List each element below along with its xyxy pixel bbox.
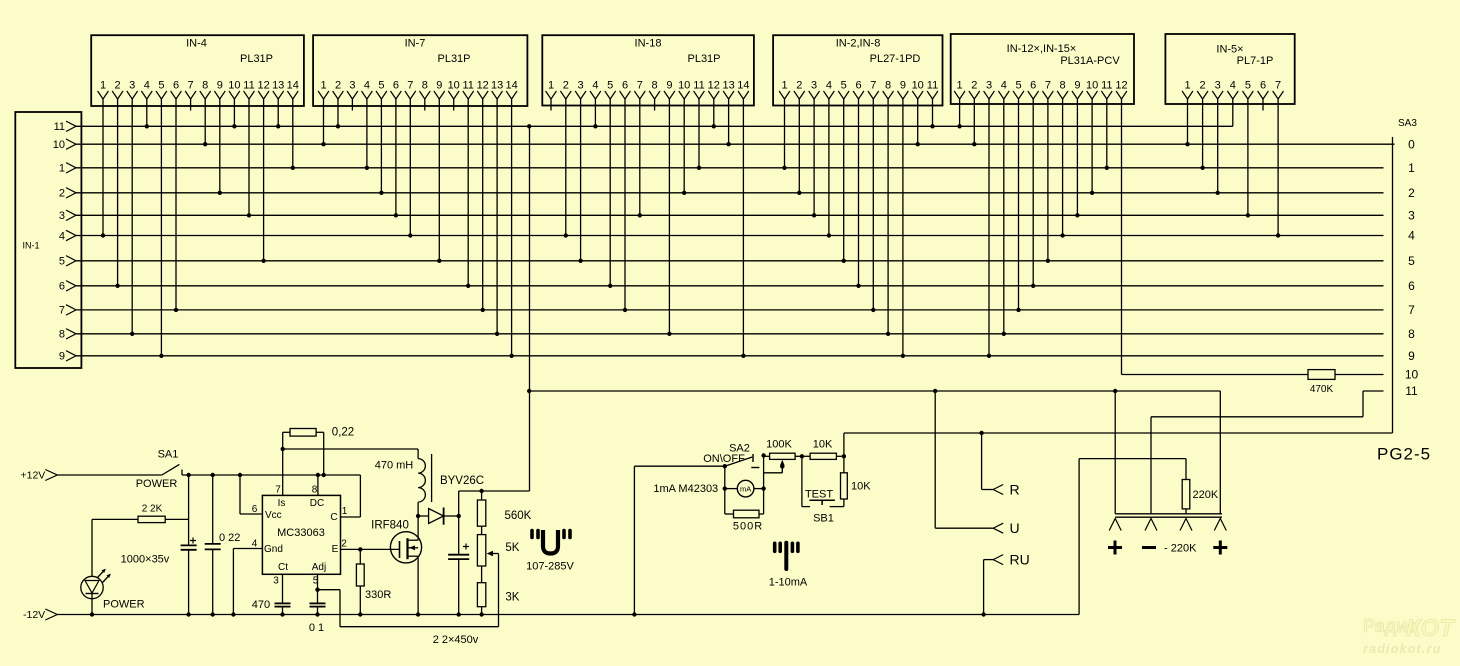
svg-text:8: 8 [202, 80, 208, 92]
connector box IN-12x,IN-15x [951, 34, 1134, 104]
diode BYV26C [418, 515, 429, 517]
svg-text:4: 4 [1001, 80, 1007, 92]
label "I" output current symbol [784, 543, 788, 569]
svg-text:12: 12 [1115, 80, 1127, 92]
wire IN-7 pin 2 to row r11 [337, 99, 339, 126]
wire +12V to switch [57, 474, 162, 476]
wire IN-7 pin 5 to row r2 [380, 99, 382, 193]
svg-text:2: 2 [341, 539, 347, 550]
svg-text:7: 7 [188, 80, 194, 92]
switch SA2 [725, 457, 753, 466]
wire IN-7 pin 14 to row r9 [511, 99, 513, 356]
capacitor 0.1 [310, 602, 326, 604]
svg-text:1mA M42303: 1mA M42303 [653, 483, 718, 495]
junction dots [101, 233, 105, 237]
wire IN-12x,IN-15x pin 2 to row r0 [973, 99, 975, 144]
svg-text:SA3: SA3 [1398, 118, 1417, 129]
wire IN-7 pin 1 to row r0 [323, 99, 325, 144]
wire stub IN-5x pin 6 [1262, 99, 1264, 111]
wire IN-4 pin 14 to row r1 [292, 99, 294, 168]
svg-text:ON\OFF: ON\OFF [703, 453, 745, 465]
wire pin 2 E to gate [341, 548, 400, 550]
capacitor 0.22 input [212, 475, 214, 544]
wire ground to SA2 [633, 466, 635, 614]
svg-text:7: 7 [1275, 80, 1281, 92]
svg-text:8: 8 [1408, 327, 1415, 341]
svg-text:14: 14 [737, 80, 749, 92]
svg-text:3: 3 [1215, 80, 1221, 92]
wire IN-4 pin 1 to row r4 [102, 99, 104, 236]
wire ground rail [57, 614, 1079, 616]
svg-text:470: 470 [252, 599, 270, 611]
wire IN-7 pin 4 to row r1 [366, 99, 368, 168]
resistor 3K [481, 566, 483, 583]
wire IN-2,IN-8 pin 10 to row r0 [917, 99, 919, 144]
svg-text:7: 7 [275, 485, 281, 496]
wire down to minus terminal [1150, 417, 1152, 514]
svg-text:SB1: SB1 [813, 513, 834, 525]
svg-text:BYV26C: BYV26C [440, 475, 484, 487]
svg-text:PL7-1P: PL7-1P [1237, 55, 1274, 67]
svg-text:6: 6 [622, 80, 628, 92]
svg-text:IN-18: IN-18 [635, 38, 662, 50]
wire IN-7 pin 7 to row r4 [409, 99, 411, 236]
svg-text:7: 7 [870, 80, 876, 92]
svg-text:PL27-1PD: PL27-1PD [870, 53, 921, 65]
svg-text:11: 11 [1405, 384, 1418, 398]
svg-text:7: 7 [407, 80, 413, 92]
wire row: IN-1 pin 9 / SA3 contact 9 [75, 355, 1384, 357]
svg-text:2: 2 [1200, 80, 1206, 92]
resistor 2.2K [92, 518, 138, 520]
svg-text:3: 3 [349, 80, 355, 92]
wire IN-7 pin 9 to row r5 [438, 99, 440, 261]
wire stub IN-18 pin 8 [654, 99, 656, 111]
svg-text:6: 6 [173, 80, 179, 92]
resistor 560K [481, 491, 483, 500]
LED POWER [81, 576, 103, 598]
svg-text:TEST: TEST [805, 489, 833, 501]
svg-text:C: C [330, 512, 337, 523]
svg-text:4: 4 [59, 230, 65, 242]
svg-text:6: 6 [855, 80, 861, 92]
svg-text:POWER: POWER [103, 599, 145, 611]
wire IN-18 pin 3 to row r5 [580, 99, 582, 261]
svg-text:SA1: SA1 [158, 449, 179, 461]
svg-text:Vcc: Vcc [265, 510, 282, 521]
svg-text:3: 3 [273, 576, 279, 587]
wire IN-4 pin 9 to row r2 [219, 99, 221, 193]
wire LED branch [91, 519, 93, 576]
svg-text:2: 2 [796, 80, 802, 92]
wire IN-18 pin 11 to row r1 [698, 99, 700, 168]
svg-text:0 1: 0 1 [309, 622, 324, 634]
wire row: HV line to SA3 area (row 11 level) [529, 390, 1220, 392]
svg-text:12: 12 [708, 80, 720, 92]
svg-text:10: 10 [228, 80, 240, 92]
svg-text:9: 9 [666, 80, 672, 92]
resistor 0,22 [283, 431, 290, 433]
wire IN-12x,IN-15x pin 12 down to row 10 elbow [1121, 99, 1123, 375]
wire step down from contact 11 [1362, 391, 1364, 417]
svg-text:470 mH: 470 mH [375, 460, 414, 472]
svg-text:mA: mA [740, 485, 751, 494]
wire IN-12x,IN-15x pin 11 to row r1 [1106, 99, 1108, 168]
svg-text:4: 4 [1230, 80, 1236, 92]
svg-text:0 22: 0 22 [219, 532, 240, 544]
svg-text:radiokot.ru: radiokot.ru [1363, 642, 1441, 656]
svg-text:Ct: Ct [278, 562, 288, 573]
wire IN-4 pin 2 to row r6 [117, 99, 119, 286]
svg-text:1: 1 [781, 80, 787, 92]
svg-text:IN-12×,IN-15×: IN-12×,IN-15× [1007, 43, 1077, 55]
switch SA1 [162, 464, 180, 475]
wire drain [417, 516, 419, 540]
wire pin 7 [282, 432, 284, 495]
svg-text:100K: 100K [766, 439, 792, 451]
wire IN-2,IN-8 pin 11 to row r11 [932, 99, 934, 126]
wire IN-5x pin 7 to row r4 [1277, 99, 1279, 236]
label plus left [1108, 546, 1122, 549]
wire 10K right node up to selector [843, 433, 845, 456]
wire IN-4 pin 13 to row r11 [277, 99, 279, 126]
socket fork at 1186 [1180, 519, 1192, 531]
wire row: IN-1 pin 11 anode bus [75, 125, 1233, 127]
svg-text:2: 2 [563, 80, 569, 92]
wire IN-12x,IN-15x pin 10 to row r2 [1091, 99, 1093, 193]
svg-text:PL31P: PL31P [437, 53, 470, 65]
svg-text:14: 14 [287, 80, 299, 92]
wire ground up to 220K [1078, 459, 1080, 615]
svg-text:10K: 10K [813, 439, 833, 451]
label plus right [1213, 546, 1227, 549]
wire +12V rail corner to pin 1 [359, 475, 361, 517]
svg-text:10: 10 [1086, 80, 1098, 92]
wire IN-12x,IN-15x pin 8 to row r4 [1062, 99, 1064, 236]
svg-text:11: 11 [54, 121, 65, 133]
wire IN-18 pin 2 to row r4 [565, 99, 567, 236]
connector box IN-7 [313, 35, 527, 106]
wire row: IN-1 pin 10 / SA3 contact 0 [75, 143, 1395, 145]
svg-text:12: 12 [257, 80, 269, 92]
svg-text:1: 1 [59, 163, 65, 175]
wire HV vertical from anode bus to converter output [529, 126, 531, 491]
connector box IN-2,IN-8 [773, 35, 942, 105]
wire IN-18 pin 14 to row r9 [742, 99, 744, 356]
svg-text:PL31P: PL31P [240, 53, 273, 65]
resistor 330R [359, 549, 361, 564]
svg-text:2: 2 [1408, 186, 1415, 200]
svg-text:560K: 560K [505, 510, 532, 522]
socket bar [1115, 513, 1222, 515]
svg-text:1: 1 [320, 80, 326, 92]
wire to inductor [283, 448, 418, 450]
svg-text:3K: 3K [505, 592, 519, 604]
wire stub IN-4 pin 7 [190, 99, 192, 111]
wire IN-5x pin 4 down to row 11 bus end elbow [1232, 99, 1234, 126]
svg-text:9: 9 [1074, 80, 1080, 92]
svg-text:2: 2 [971, 80, 977, 92]
svg-text:5: 5 [1408, 254, 1415, 268]
wire pin 3 Ct [282, 574, 284, 603]
wire stub IN-18 pin 1 [550, 99, 552, 111]
wire +12V rail [182, 474, 360, 476]
wire source to rail [417, 556, 419, 614]
svg-text:220K: 220K [1193, 489, 1219, 501]
wire IN-5x pin 2 to row r1 [1202, 99, 1204, 168]
wire IN-7 pin 12 to row r7 [482, 99, 484, 310]
svg-text:2: 2 [115, 80, 121, 92]
capacitor 1000uF 35v [188, 475, 190, 545]
wire converter output horizontal [459, 490, 530, 492]
wire IN-2,IN-8 pin 7 to row r7 [872, 99, 874, 310]
svg-text:IN-5×: IN-5× [1216, 44, 1243, 56]
op-amp U1 MC33063 box [262, 495, 340, 574]
svg-text:500R: 500R [733, 520, 763, 532]
wire IN-4 pin 4 to row r11 [146, 99, 148, 126]
wire IN-4 pin 5 to row r9 [160, 99, 162, 356]
svg-text:+12V: +12V [21, 470, 46, 482]
wire pin 5 Adj [317, 574, 319, 603]
resistor 10K series [802, 455, 810, 457]
svg-text:PG2-5: PG2-5 [1377, 445, 1431, 464]
socket fork at 1115.2 [1109, 519, 1121, 531]
svg-text:1: 1 [548, 80, 554, 92]
svg-text:14: 14 [505, 80, 517, 92]
wire row: SA3 contact 10 with 470K [1122, 374, 1384, 376]
wire IN-12x,IN-15x pin 1 to row r11 [959, 99, 961, 126]
svg-text:5K: 5K [505, 542, 519, 554]
wire meter right node [763, 456, 765, 515]
wire IN-4 pin 11 to row r3 [248, 99, 250, 215]
wire minus terminal [1219, 391, 1221, 514]
svg-text:0: 0 [1408, 137, 1415, 151]
resistor 5K potentiometer [481, 526, 483, 534]
wire SA3 contact 11 stub [1363, 390, 1384, 392]
wire pin 6 Vcc [239, 475, 241, 514]
wire IN-2,IN-8 pin 2 to row r2 [798, 99, 800, 193]
svg-text:DC: DC [310, 498, 324, 509]
wire feedback from pin 5 [318, 589, 341, 591]
svg-text:3: 3 [59, 210, 65, 222]
wire IN-18 pin 10 to row r2 [683, 99, 685, 193]
svg-text:IN-7: IN-7 [405, 38, 426, 50]
wire IN-18 pin 5 to row r6 [609, 99, 611, 286]
wire LED to rail [91, 594, 93, 615]
svg-text:5: 5 [1245, 80, 1251, 92]
wire plus terminal left [1114, 391, 1116, 514]
svg-text:U: U [1010, 520, 1020, 536]
socket fork at 1151 [1145, 519, 1157, 531]
label minus [1142, 546, 1156, 549]
resistor 100K trimmer [764, 455, 770, 457]
wire horizontal from contact 11 step [1151, 416, 1363, 418]
wire row: IN-1 pin 2 / SA3 contact 2 [75, 192, 1384, 194]
svg-text:5: 5 [158, 80, 164, 92]
wiper of 100K [781, 462, 783, 473]
wire IN-2,IN-8 pin 6 to row r6 [858, 99, 860, 286]
svg-text:3: 3 [986, 80, 992, 92]
wire IN-7 pin 11 to row r6 [467, 99, 469, 286]
wire IN-5x pin 1 to row r0 [1187, 99, 1189, 144]
wire IN-18 pin 12 to row r11 [713, 99, 715, 126]
connector box IN-18 [542, 35, 754, 105]
wire row: IN-1 pin 7 / SA3 contact 7 [75, 309, 1384, 311]
wire IN-18 pin 13 to row r0 [728, 99, 730, 144]
svg-text:6: 6 [59, 281, 65, 293]
svg-text:2: 2 [335, 80, 341, 92]
svg-text:12: 12 [477, 80, 489, 92]
svg-text:4: 4 [364, 80, 370, 92]
svg-text:10: 10 [912, 80, 924, 92]
svg-text:8: 8 [885, 80, 891, 92]
wire stub IN-7 pin 3 [351, 99, 353, 111]
connector IN-1 box [15, 112, 81, 368]
wire IN-4 pin 8 to row r0 [204, 99, 206, 144]
transistor IRF840 [390, 532, 421, 563]
connector box IN-5x [1165, 34, 1294, 104]
inductor 470 mH [417, 449, 419, 459]
svg-text:1: 1 [957, 80, 963, 92]
svg-text:5: 5 [378, 80, 384, 92]
svg-text:13: 13 [491, 80, 503, 92]
wire IN-2,IN-8 pin 3 to row r3 [813, 99, 815, 215]
svg-text:5: 5 [607, 80, 613, 92]
wire row: IN-1 pin 6 / SA3 contact 6 [75, 285, 1384, 287]
svg-text:4: 4 [144, 80, 150, 92]
svg-text:E: E [332, 544, 339, 555]
svg-text:2: 2 [59, 188, 65, 200]
switch SA3 common bus vertical [1392, 137, 1394, 433]
wire IN-4 pin 6 to row r7 [175, 99, 177, 310]
capacitor 2.2x450v [458, 516, 460, 555]
svg-text:5: 5 [59, 256, 65, 268]
wire pin 8 [317, 475, 319, 495]
svg-text:9: 9 [217, 80, 223, 92]
svg-text:8: 8 [652, 80, 658, 92]
wire IN-12x,IN-15x pin 6 to row r6 [1032, 99, 1034, 286]
svg-text:107-285V: 107-285V [526, 560, 574, 572]
svg-text:R: R [1010, 482, 1020, 498]
svg-text:7: 7 [1408, 303, 1415, 317]
svg-text:11: 11 [1101, 80, 1112, 92]
wire IN-5x pin 5 to row r3 [1247, 99, 1249, 215]
svg-text:4: 4 [592, 80, 598, 92]
push button SB1 TEST [801, 456, 803, 506]
wire IN-18 pin 6 to row r7 [624, 99, 626, 310]
svg-text:IN-4: IN-4 [186, 38, 207, 50]
wire IN-18 pin 4 to row r11 [594, 99, 596, 126]
svg-text:330R: 330R [365, 589, 391, 601]
svg-text:PL31P: PL31P [687, 53, 720, 65]
svg-text:- 220K: - 220K [1164, 543, 1197, 555]
wire IN-12x,IN-15x pin 9 to row r3 [1076, 99, 1078, 215]
svg-text:3: 3 [129, 80, 135, 92]
svg-text:8: 8 [422, 80, 428, 92]
label "U" output voltage symbol [543, 530, 558, 554]
resistor 500R shunt [725, 513, 734, 515]
svg-text:5: 5 [841, 80, 847, 92]
svg-text:10K: 10K [851, 481, 871, 493]
svg-text:2 2K: 2 2K [142, 504, 163, 515]
wire row: IN-1 pin 4 / SA3 contact 4 [75, 235, 1384, 237]
wire IN-5x pin 3 to row r2 [1217, 99, 1219, 193]
svg-text:1: 1 [100, 80, 106, 92]
capacitor 470 [275, 602, 291, 604]
svg-text:7: 7 [1045, 80, 1051, 92]
svg-text:6: 6 [393, 80, 399, 92]
svg-text:Adj: Adj [312, 562, 326, 573]
svg-text:1: 1 [1184, 80, 1190, 92]
wire diode node up [458, 491, 460, 516]
svg-text:5: 5 [1015, 80, 1021, 92]
svg-text:POWER: POWER [136, 478, 178, 490]
svg-text:470K: 470K [1310, 384, 1334, 395]
wire IN-18 pin 9 to row r8 [668, 99, 670, 334]
svg-text:8: 8 [312, 485, 318, 496]
svg-text:9: 9 [1408, 349, 1415, 363]
wire row: IN-1 pin 3 / SA3 contact 3 [75, 214, 1384, 216]
svg-text:8: 8 [59, 329, 65, 341]
svg-text:1-10mA: 1-10mA [769, 576, 808, 588]
svg-text:7: 7 [59, 305, 65, 317]
wire IN-4 pin 12 to row r5 [263, 99, 265, 261]
wire IN-2,IN-8 pin 9 to row r9 [902, 99, 904, 356]
svg-text:13: 13 [722, 80, 734, 92]
svg-text:6: 6 [1260, 80, 1266, 92]
svg-text:1000×35v: 1000×35v [121, 554, 170, 566]
wire IN-7 pin 6 to row r3 [395, 99, 397, 215]
wire IN-7 pin 13 to row r8 [496, 99, 498, 334]
svg-text:1: 1 [342, 506, 348, 517]
svg-text:3: 3 [1408, 209, 1415, 223]
svg-text:КОТ: КОТ [1406, 615, 1456, 642]
svg-text:IN-1: IN-1 [22, 241, 39, 251]
resistor 470K [1308, 370, 1335, 380]
wire IN-12x,IN-15x pin 7 to row r5 [1047, 99, 1049, 261]
wire IN-4 pin 3 to row r8 [131, 99, 133, 334]
svg-text:-12V: -12V [23, 609, 45, 621]
svg-text:11: 11 [243, 80, 254, 92]
svg-text:4: 4 [826, 80, 832, 92]
svg-text:1: 1 [1408, 161, 1415, 175]
svg-text:11: 11 [693, 80, 704, 92]
svg-text:Is: Is [278, 498, 286, 509]
wire pin 4 Gnd [233, 548, 262, 550]
svg-text:9: 9 [59, 351, 65, 363]
LED arrows [98, 570, 106, 578]
wire IN-2,IN-8 pin 8 to row r8 [887, 99, 889, 334]
svg-text:PL31A-PCV: PL31A-PCV [1060, 55, 1120, 67]
wire row: IN-1 pin 5 / SA3 contact 5 [75, 260, 1384, 262]
resistor 220K [1185, 459, 1187, 480]
svg-text:MC33063: MC33063 [277, 527, 325, 539]
resistor 10K vertical [843, 456, 845, 473]
svg-text:4: 4 [1408, 229, 1415, 243]
wire IN-4 pin 10 to row r11 [233, 99, 235, 126]
wire IN-2,IN-8 pin 1 to row r1 [784, 99, 786, 168]
wire stub IN-7 pin 10 [453, 99, 455, 111]
svg-text:RU: RU [1010, 552, 1030, 568]
wire stub IN-7 pin 8 [424, 99, 426, 111]
svg-text:9: 9 [900, 80, 906, 92]
svg-text:8: 8 [1060, 80, 1066, 92]
svg-text:3: 3 [811, 80, 817, 92]
svg-text:Gnd: Gnd [264, 544, 283, 555]
svg-text:7: 7 [637, 80, 643, 92]
svg-text:10: 10 [1405, 368, 1419, 382]
svg-text:13: 13 [272, 80, 284, 92]
